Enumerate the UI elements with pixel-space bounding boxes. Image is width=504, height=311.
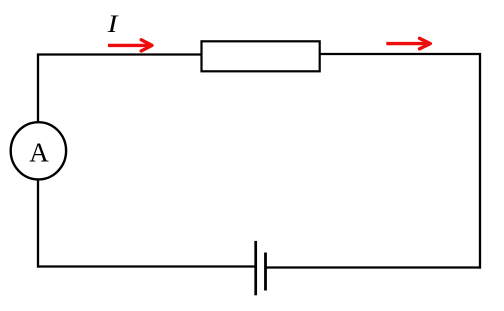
wire: left vertical lower segment (ammeter to bottom corner) bbox=[37, 179, 39, 268]
wire: bottom-right segment (battery to bottom-right corner) bbox=[266, 266, 481, 268]
svg-text:A: A bbox=[29, 138, 49, 168]
wire: top-right segment (resistor to top-right corner) bbox=[320, 53, 482, 55]
wire: top-left segment (ammeter branch to resistor) bbox=[37, 53, 202, 55]
resistor (rectangular box on top wire) bbox=[202, 41, 320, 71]
current arrow (left, on top wire before resistor) bbox=[108, 40, 152, 51]
battery cell: long plate (positive) bbox=[254, 241, 257, 295]
current label I bbox=[107, 10, 120, 38]
wire: left vertical upper segment (top corner to ammeter) bbox=[37, 54, 39, 124]
battery cell: short plate (negative) bbox=[264, 253, 267, 291]
wire: bottom-left segment (bottom-left corner to battery) bbox=[37, 265, 256, 267]
ammeter A (circle with letter A) bbox=[11, 122, 66, 179]
wire: right vertical segment bbox=[479, 53, 481, 269]
current arrow (right, on top wire after resistor) bbox=[386, 38, 430, 49]
svg-text:I: I bbox=[107, 10, 120, 38]
